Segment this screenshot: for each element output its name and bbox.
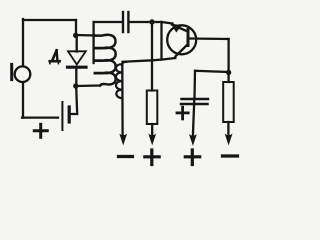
- wire battery left: [22, 116, 58, 118]
- diode VD lead bottom: [75, 67, 77, 86]
- minus label under R2: [223, 154, 238, 157]
- node dot B: [73, 83, 78, 88]
- transistor VT1 emitter: [172, 25, 187, 32]
- resistor R2 body: [223, 82, 234, 122]
- wire top rail: [94, 21, 122, 23]
- capacitor C2 bottom plate: [181, 103, 208, 106]
- resistor R2 bottom lead: [227, 122, 229, 136]
- transistor VT1 base bar: [187, 30, 190, 46]
- transistor VT1 base lead: [189, 37, 229, 40]
- wire vertical from node C down to R1: [151, 22, 153, 91]
- inductor L1 loops: [94, 35, 116, 86]
- capacitor C1 left plate: [122, 12, 124, 32]
- inductor L1 stem: [92, 22, 94, 63]
- wire vertical x161: [160, 22, 162, 60]
- inductor L2 stem top corner: [122, 62, 126, 65]
- wire C2 bottom lead: [193, 99, 194, 136]
- wire mic bottom vertical: [22, 83, 24, 118]
- transistor VT1 collector: [175, 45, 187, 59]
- wire base corner down: [227, 39, 229, 73]
- wire node D to R2: [227, 73, 229, 83]
- arrow under R1: [149, 135, 155, 144]
- resistor R1 bottom lead: [151, 124, 153, 136]
- battery plus label: [34, 124, 47, 137]
- wire diode column top: [75, 20, 77, 36]
- node dot C: [149, 19, 154, 24]
- plus label beside C2: [177, 107, 188, 119]
- label D (italic Cyrillic De): [50, 50, 60, 63]
- diode VD lead top: [76, 36, 78, 52]
- capacitor C2 top plate: [182, 98, 209, 101]
- minus label under L2: [119, 155, 133, 158]
- wire top rail to emitter: [162, 22, 173, 24]
- diode VD triangle: [68, 51, 86, 64]
- capacitor C1 right plate: [127, 12, 129, 32]
- wire node A to coil top: [76, 34, 95, 37]
- battery GB1 long plate: [61, 102, 63, 130]
- plus label under C2: [185, 150, 199, 165]
- wire C2 top lead: [193, 71, 196, 98]
- battery GB1 short plate: [68, 107, 71, 122]
- inductor L2 loops: [116, 64, 122, 98]
- transistor VT1 circle: [167, 25, 196, 54]
- node dot D: [226, 70, 231, 75]
- arrow under L2: [120, 135, 126, 144]
- diode VD cathode bar: [68, 66, 87, 69]
- microphone bar: [10, 64, 13, 79]
- wire node D to C2: [195, 71, 229, 72]
- resistor R1 body: [147, 91, 158, 125]
- wire top-left horizontal: [23, 19, 76, 21]
- plus label under R1: [145, 150, 159, 165]
- transistor VT1 emitter arrowhead: [172, 24, 181, 31]
- node dot A: [73, 33, 78, 38]
- arrow under C2: [190, 135, 196, 144]
- wire node B to coil bottom: [76, 84, 100, 87]
- wire battery right riser: [71, 87, 78, 114]
- wire top rail right of C1: [130, 21, 162, 23]
- microphone BM1: [15, 66, 31, 82]
- arrow under R2: [226, 135, 232, 144]
- collector wire rail: [123, 58, 176, 62]
- wire mic top vertical: [22, 19, 24, 66]
- inductor L2 stem: [121, 64, 124, 136]
